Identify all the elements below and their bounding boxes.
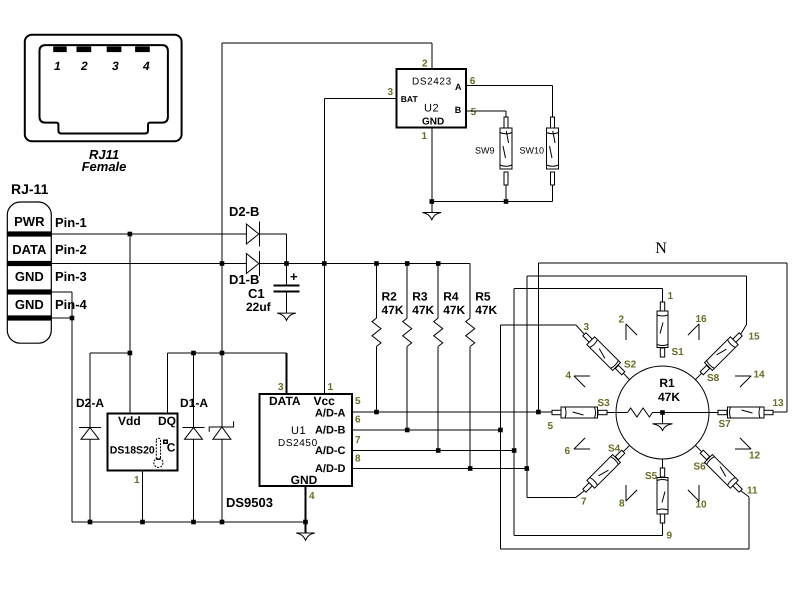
svg-text:S4: S4 — [608, 444, 621, 455]
svg-text:S8: S8 — [707, 373, 720, 384]
svg-text:R3: R3 — [412, 290, 428, 304]
svg-text:12: 12 — [749, 451, 761, 462]
svg-text:S3: S3 — [598, 398, 611, 409]
svg-text:47K: 47K — [658, 390, 680, 404]
svg-text:GND: GND — [15, 297, 44, 312]
svg-text:Pin-1: Pin-1 — [55, 215, 87, 230]
svg-text:2: 2 — [619, 315, 625, 326]
svg-text:47K: 47K — [382, 303, 404, 317]
svg-text:5: 5 — [471, 107, 477, 118]
svg-text:GND: GND — [291, 473, 318, 487]
svg-text:DS2423: DS2423 — [412, 77, 452, 88]
svg-text:22uf: 22uf — [246, 300, 272, 314]
svg-text:A/D-A: A/D-A — [315, 408, 346, 420]
svg-text:A: A — [455, 82, 462, 92]
svg-text:DS18S20: DS18S20 — [110, 445, 155, 457]
svg-text:47K: 47K — [412, 303, 434, 317]
svg-text:DATA: DATA — [269, 394, 301, 408]
svg-text:13: 13 — [773, 398, 785, 409]
svg-text:8: 8 — [619, 499, 625, 510]
svg-text:DS2450: DS2450 — [278, 438, 318, 449]
svg-text:3: 3 — [584, 322, 590, 333]
svg-text:SW10: SW10 — [520, 146, 545, 156]
svg-text:Pin-2: Pin-2 — [55, 242, 87, 257]
svg-text:5: 5 — [355, 396, 361, 407]
svg-text:S1: S1 — [672, 347, 685, 358]
svg-text:N: N — [655, 240, 667, 257]
svg-text:A/D-B: A/D-B — [315, 425, 346, 437]
svg-text:C1: C1 — [248, 286, 265, 301]
svg-text:DS9503: DS9503 — [226, 495, 273, 510]
svg-text:A/D-C: A/D-C — [315, 445, 346, 457]
svg-text:3: 3 — [388, 87, 394, 98]
svg-text:RJ-11: RJ-11 — [11, 181, 49, 197]
svg-text:16: 16 — [696, 314, 708, 325]
svg-text:15: 15 — [749, 332, 761, 343]
svg-text:U1: U1 — [291, 425, 306, 437]
svg-text:8: 8 — [355, 454, 361, 465]
svg-text:SW9: SW9 — [475, 146, 495, 156]
svg-text:Female: Female — [82, 159, 127, 174]
svg-text:47K: 47K — [475, 303, 497, 317]
svg-text:1: 1 — [422, 131, 428, 142]
svg-text:S5: S5 — [645, 471, 658, 482]
svg-text:2: 2 — [80, 59, 88, 73]
svg-text:10: 10 — [696, 500, 708, 511]
svg-text:D1-B: D1-B — [229, 272, 259, 287]
svg-text:9: 9 — [667, 531, 673, 542]
svg-text:Vcc: Vcc — [314, 394, 336, 408]
svg-text:GND: GND — [422, 117, 444, 128]
svg-text:1: 1 — [328, 382, 334, 393]
svg-text:3: 3 — [112, 59, 119, 73]
svg-text:7: 7 — [355, 435, 361, 446]
svg-text:D1-A: D1-A — [180, 396, 208, 410]
svg-text:1: 1 — [54, 59, 61, 73]
svg-text:BAT: BAT — [401, 94, 419, 104]
svg-text:47K: 47K — [443, 303, 465, 317]
svg-text:DATA: DATA — [12, 242, 47, 257]
svg-text:B: B — [455, 105, 462, 115]
svg-text:R1: R1 — [659, 376, 675, 390]
svg-text:1: 1 — [134, 475, 140, 486]
svg-text:R5: R5 — [475, 290, 491, 304]
svg-text:+: + — [290, 269, 298, 284]
svg-text:3: 3 — [278, 382, 284, 393]
svg-text:DQ: DQ — [158, 414, 176, 428]
svg-text:PWR: PWR — [14, 214, 45, 229]
svg-text:7: 7 — [581, 497, 587, 508]
svg-text:6: 6 — [355, 415, 361, 426]
svg-text:C: C — [167, 441, 176, 455]
svg-text:Pin-3: Pin-3 — [55, 269, 87, 284]
svg-text:4: 4 — [309, 491, 315, 502]
svg-text:R4: R4 — [443, 290, 459, 304]
svg-text:2: 2 — [422, 59, 428, 70]
svg-text:D2-A: D2-A — [76, 396, 104, 410]
svg-text:U2: U2 — [424, 103, 439, 115]
svg-text:11: 11 — [747, 486, 758, 497]
svg-text:Pin-4: Pin-4 — [55, 297, 88, 312]
svg-text:4: 4 — [566, 371, 572, 382]
svg-text:5: 5 — [548, 421, 554, 432]
svg-text:6: 6 — [565, 446, 571, 457]
svg-text:S7: S7 — [719, 419, 732, 430]
svg-text:1: 1 — [668, 291, 674, 302]
svg-text:R2: R2 — [382, 290, 398, 304]
svg-text:Vdd: Vdd — [118, 414, 141, 428]
svg-text:D2-B: D2-B — [229, 204, 259, 219]
svg-text:S2: S2 — [624, 360, 637, 371]
svg-text:A/D-D: A/D-D — [315, 463, 346, 475]
svg-text:14: 14 — [754, 370, 766, 381]
svg-text:S6: S6 — [694, 462, 707, 473]
svg-text:4: 4 — [142, 59, 150, 73]
svg-text:GND: GND — [15, 269, 44, 284]
